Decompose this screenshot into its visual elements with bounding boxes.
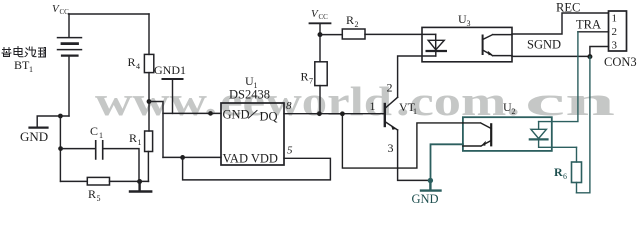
ground GND (left) — [30, 126, 48, 128]
connector CON3 — [609, 11, 627, 51]
U2 phototransistor — [490, 124, 492, 145]
resistor R4 — [144, 54, 153, 72]
svg-text:4: 4 — [136, 62, 140, 71]
node dot below R4 — [147, 99, 152, 104]
node dot Vcc right — [318, 32, 323, 37]
svg-text:DS2438: DS2438 — [229, 88, 270, 102]
U2 LED — [538, 122, 540, 130]
ground GND (bottom middle) — [421, 181, 441, 191]
wire R4 to R1 — [148, 73, 150, 131]
svg-text:5: 5 — [97, 194, 101, 203]
optocoupler U2 box — [463, 117, 552, 151]
power Vcc (right) — [311, 8, 328, 21]
svg-text:GND: GND — [223, 108, 250, 122]
svg-text:1: 1 — [370, 99, 376, 113]
node dot C row — [58, 146, 63, 151]
node dot GND right — [428, 178, 433, 183]
ground (bottom left) — [130, 182, 151, 192]
wire to DS2438 VAD pin — [163, 156, 221, 158]
svg-text:3: 3 — [612, 40, 618, 52]
battery BT1 — [58, 38, 82, 56]
wire SGND vertical to R6 bottom — [577, 57, 590, 193]
wire Vcc top horizontal — [69, 13, 150, 15]
svg-text:R: R — [301, 70, 309, 84]
svg-text:1: 1 — [138, 138, 142, 147]
node dot U2 branch/DQ — [340, 111, 345, 116]
wire VT1 emitter down — [398, 130, 431, 180]
svg-text:REC: REC — [556, 1, 580, 15]
wire U2 emitter to GND — [431, 144, 463, 180]
svg-text:1: 1 — [29, 65, 33, 74]
svg-text:GND: GND — [20, 129, 48, 144]
wire R1 bottom — [147, 152, 149, 182]
svg-text:GND: GND — [412, 192, 439, 204]
svg-text:7: 7 — [309, 77, 313, 86]
wire R6 bottom — [576, 183, 578, 193]
wire battery bottom stub — [68, 56, 70, 116]
svg-text:2: 2 — [612, 26, 618, 38]
svg-text:1: 1 — [99, 131, 103, 140]
resistor R1 — [145, 131, 153, 152]
wire to DS2438 GND pin — [163, 112, 221, 114]
label BT1 — [14, 58, 33, 74]
svg-text:3: 3 — [467, 19, 471, 28]
svg-text:R: R — [554, 165, 563, 179]
wire U2 collector to DQ branch — [342, 114, 463, 168]
node dot SGND — [587, 54, 592, 59]
optocoupler U3 box — [422, 27, 512, 61]
wire R2 to U3 LED — [365, 33, 436, 35]
resistor R2 — [342, 29, 365, 39]
Vcc label (left) — [52, 3, 69, 16]
svg-text:2: 2 — [355, 20, 359, 29]
wire bottom rail left — [61, 180, 88, 182]
svg-text:GND1: GND1 — [154, 63, 186, 77]
wire R7 bottom — [319, 86, 321, 114]
wire to GND left — [37, 116, 69, 126]
wire U3 emitter SGND — [512, 55, 590, 57]
svg-text:C: C — [90, 124, 98, 138]
slash inside DS2438 — [249, 111, 258, 119]
wire Vcc to R7 — [319, 35, 321, 62]
svg-text:TRA: TRA — [576, 18, 601, 32]
svg-text:5: 5 — [287, 145, 293, 157]
svg-text:CC: CC — [319, 13, 329, 21]
node dot on GND pin wire — [208, 111, 213, 116]
resistor R7 — [315, 62, 327, 86]
wire R4 top — [148, 14, 150, 54]
svg-text:2: 2 — [512, 107, 516, 116]
wire vertical left branch — [59, 116, 61, 181]
node dot ground bottom — [137, 179, 142, 184]
watermark — [95, 78, 615, 124]
wire VDD pin5 loop — [183, 157, 331, 180]
resistor R5 — [87, 177, 109, 185]
wire DQ pin 8 — [284, 113, 385, 115]
svg-text:3: 3 — [388, 141, 394, 155]
svg-text:6: 6 — [563, 172, 567, 181]
node dot battery/gnd — [58, 114, 63, 119]
wire VT1 collector to U3 LED cathode — [398, 56, 436, 97]
capacitor C — [96, 141, 103, 159]
svg-text:1: 1 — [413, 107, 417, 116]
svg-text:R: R — [129, 131, 137, 145]
wire CON3 pin2 TRA — [578, 31, 609, 33]
svg-text:VAD VDD: VAD VDD — [223, 152, 278, 166]
wire U3 collector to CON3 pin1 (REC) — [512, 13, 609, 34]
svg-text:R: R — [128, 55, 136, 69]
node dot R7/DQ — [317, 111, 322, 116]
wire CON3 pin3 to SGND dot — [590, 47, 609, 57]
wire battery top stub — [68, 14, 70, 37]
wire TRA vertical to U2 LED anode — [539, 32, 578, 122]
svg-text:SGND: SGND — [527, 38, 561, 52]
wire C row left — [61, 148, 96, 150]
svg-text:DQ: DQ — [260, 110, 278, 124]
wire R6 top — [576, 147, 578, 162]
label 蓄电池组 (drawn glyphs) — [2, 47, 46, 58]
svg-text:CC: CC — [60, 8, 70, 16]
node dot on VAD wire — [180, 155, 185, 160]
svg-text:2: 2 — [387, 81, 393, 95]
wire bottom rail right — [110, 180, 149, 182]
IC U1 DS2438 box — [221, 103, 284, 165]
svg-text:R: R — [88, 187, 96, 201]
resistor R6 — [572, 162, 582, 183]
svg-text:CON3: CON3 — [604, 55, 637, 69]
U3 LED — [435, 34, 437, 50]
ground GND1 — [163, 78, 183, 80]
svg-text:1: 1 — [612, 13, 618, 25]
svg-text:BT: BT — [14, 58, 30, 72]
lower-right teal section — [342, 32, 590, 206]
wire Vcc to R2 — [320, 34, 342, 36]
svg-text:8: 8 — [286, 100, 292, 112]
svg-text:R: R — [346, 13, 354, 27]
wire branch right of R4 — [149, 102, 163, 158]
transistor VT1 — [384, 104, 386, 126]
U3 phototransistor — [482, 36, 484, 55]
wire C row right — [103, 149, 139, 182]
